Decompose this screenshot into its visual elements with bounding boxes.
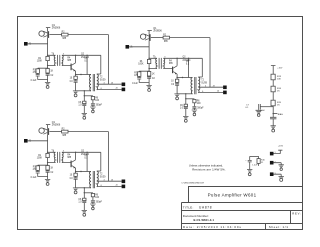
- svg-text:2: 2: [275, 161, 276, 163]
- svg-text:Date: 2/05/2013 11:34:00u: Date: 2/05/2013 11:34:00u: [183, 225, 242, 229]
- svg-text:UA878: UA878: [199, 205, 212, 209]
- svg-text:Document Number:: Document Number:: [183, 214, 209, 218]
- svg-text:B-CS-W601-0-1: B-CS-W601-0-1: [194, 218, 215, 222]
- svg-text:0.1uF: 0.1uF: [260, 110, 266, 112]
- svg-text:Pulse Amplifier W601: Pulse Amplifier W601: [208, 192, 257, 197]
- svg-text:1: 1: [275, 152, 276, 154]
- svg-text:REV:: REV:: [292, 212, 301, 216]
- svg-text:+15V: +15V: [278, 145, 284, 147]
- svg-text:10K: 10K: [277, 78, 281, 80]
- svg-text:Sheet: 1/1: Sheet: 1/1: [269, 225, 289, 229]
- svg-text:TITLE:: TITLE:: [183, 205, 194, 209]
- svg-text:3: 3: [275, 173, 276, 175]
- svg-text:1.0uF: 1.0uF: [252, 165, 258, 167]
- svg-text:+15V: +15V: [277, 68, 283, 70]
- svg-text:C:\W601\W601PA.SCH: C:\W601\W601PA.SCH: [181, 181, 204, 184]
- svg-text:Resistors are 1/4W 5%.: Resistors are 1/4W 5%.: [192, 167, 226, 171]
- svg-text:BIAS: BIAS: [278, 113, 284, 116]
